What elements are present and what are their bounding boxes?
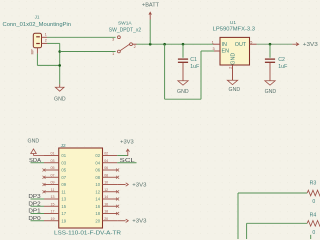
J2 pin 04 stub [103,162,118,164]
wire GND flag to pin 01 [34,155,45,157]
junction at branch to SW1A pin1 [58,50,61,53]
svg-text:+3V3: +3V3 [132,182,146,188]
no-connect pin 07 [43,176,46,179]
wire MP pin down [36,54,38,66]
svg-text:07: 07 [51,173,55,177]
net label DP1 on pin 17 [31,213,45,215]
svg-text:05: 05 [61,168,66,173]
J2 pin 07 stub [44,176,59,178]
J2 pin 12 stub [103,191,118,193]
svg-text:11: 11 [61,189,66,194]
svg-text:SW_DPDT_x2: SW_DPDT_x2 [109,27,141,33]
J2 pin 15 stub [44,205,59,207]
svg-text:MP: MP [31,49,35,55]
J2 pin 01 stub [44,155,59,157]
wire down to C1 [182,44,184,58]
SW1A pin 2 circle [130,43,133,46]
J1 pin 1 stub [42,36,48,38]
svg-text:OUT: OUT [235,42,247,48]
J2 pin 05 stub [44,169,59,171]
junction C1 [182,43,185,46]
svg-text:02: 02 [95,153,100,158]
svg-text:14: 14 [95,197,100,202]
SW1A pin 1 circle [118,50,121,53]
J2 pin 11 stub [44,191,59,193]
capacitor C1 plates [178,58,188,60]
svg-text:04: 04 [95,160,100,165]
ground symbol below C1 [178,81,188,85]
no-connect pin 08 [116,176,119,179]
power symbol +BATT [149,15,151,20]
U1 pin 5 OUT [250,43,257,45]
U1 pin 2 GND stub [232,65,234,80]
svg-text:GND: GND [177,89,189,95]
C2 lower lead [269,63,271,81]
svg-text:19: 19 [51,217,55,221]
svg-text:SCL: SCL [120,158,135,164]
svg-text:LP5907MFX-3.3: LP5907MFX-3.3 [213,26,255,32]
net label DP2 on pin 15 [31,205,45,207]
svg-text:3: 3 [213,47,215,51]
svg-text:+3V3: +3V3 [303,42,318,48]
svg-text:R3: R3 [310,180,317,186]
no-connect pin 05 [43,169,46,172]
wire up to +BATT [149,20,151,45]
net label DP3 on pin 13 [31,198,45,200]
svg-text:0: 0 [312,230,315,236]
no-connect pin 09 [43,183,46,186]
U1 pin 1 IN [213,43,220,45]
svg-text:17: 17 [61,211,66,216]
J2 pin 09 stub [44,184,59,186]
wire EN loop down [164,44,166,99]
J2 pin 08 stub [103,176,118,178]
U1 pin 3 EN [214,50,220,52]
J2 pin 13 stub [44,198,59,200]
svg-text:J1: J1 [35,15,40,20]
svg-text:18: 18 [95,211,100,216]
+3V3 power at J2 pin 20 [117,220,125,222]
svg-text:5: 5 [250,40,252,44]
svg-text:DP3: DP3 [28,194,40,200]
svg-text:11: 11 [51,188,55,192]
resistor R4 [307,221,320,227]
svg-text:2: 2 [45,39,47,43]
svg-text:2: 2 [229,67,233,69]
svg-text:02: 02 [104,152,108,156]
svg-text:J2: J2 [61,143,66,149]
svg-text:IN: IN [222,42,227,48]
wire EN loop up [200,51,202,99]
wire to R4 [247,222,308,224]
regulator U1 body [220,37,250,65]
svg-text:15: 15 [61,204,66,209]
wire EN loop to EN pin [201,50,214,52]
J2 pin 16 stub [103,205,118,207]
connector J2 body [59,148,103,228]
svg-text:DP0: DP0 [28,216,40,222]
svg-text:+3V3: +3V3 [132,219,146,225]
wire J1 pin2 right [47,42,60,44]
wire R3 down off-sheet [237,193,239,239]
svg-text:09: 09 [51,181,55,185]
svg-text:16: 16 [104,202,108,206]
svg-text:01: 01 [61,153,66,158]
svg-text:1: 1 [112,52,114,56]
svg-text:12: 12 [104,188,108,192]
junction +BATT drop [149,43,152,46]
junction EN loop [163,43,166,46]
wire down from J1 pin2 to GND [59,43,61,84]
J2 pin 19 stub [44,220,59,222]
net label SDA on pin 03 [31,162,45,164]
wire U1 OUT to +3V3 [257,43,293,45]
wire EN loop bottom [165,98,201,100]
no-connect pin 16 [116,205,119,208]
no-connect pin 12 [116,190,119,193]
svg-text:19: 19 [61,218,66,223]
svg-text:12: 12 [95,189,100,194]
+3V3 power at J2 pin 02 [117,155,128,157]
svg-text:U1: U1 [230,20,236,26]
svg-text:13: 13 [61,197,66,202]
wire MP to GND net [37,64,59,66]
power symbol +3V3 right [292,43,298,45]
svg-text:0: 0 [312,199,315,205]
SW1A lever [120,44,130,51]
svg-text:GND: GND [230,53,236,65]
svg-text:DP1: DP1 [28,209,40,215]
svg-text:2: 2 [134,45,136,49]
J2 pin 03 stub [44,162,59,164]
svg-text:10: 10 [95,182,100,187]
svg-text:07: 07 [61,175,66,180]
svg-text:13: 13 [51,195,55,199]
svg-text:C1: C1 [190,57,197,63]
SW1A pin 3 circle [118,36,121,39]
svg-text:10: 10 [104,181,108,185]
svg-text:20: 20 [95,218,100,223]
J2 pin 10 stub [103,184,118,186]
ground symbol below C2 [265,81,275,85]
junction C2 [269,43,272,46]
J2 pin 17 stub [44,213,59,215]
svg-text:LSS-110-01-F-DV-A-TR: LSS-110-01-F-DV-A-TR [54,231,121,237]
svg-text:04: 04 [104,159,108,163]
svg-text:GND: GND [229,87,241,93]
svg-text:14: 14 [104,195,108,199]
svg-text:+BATT: +BATT [142,2,160,8]
svg-text:03: 03 [51,159,55,163]
J1 pin 2 stub [42,42,48,44]
wire down to C2 [269,44,271,58]
resistor R3 [307,190,320,196]
svg-text:05: 05 [51,166,55,170]
svg-text:17: 17 [51,210,55,214]
svg-text:SDA: SDA [29,158,42,164]
svg-text:GND: GND [54,96,66,102]
net label DP0 on pin 19 [31,220,45,222]
wire SW1A pin2 to U1 IN [137,43,214,45]
svg-text:EN: EN [222,49,230,55]
svg-text:09: 09 [61,182,66,187]
svg-text:3: 3 [112,37,114,41]
svg-text:18: 18 [104,210,108,214]
J2 pin 06 stub [103,169,118,171]
svg-text:Conn_01x02_MountingPin: Conn_01x02_MountingPin [3,22,72,28]
svg-text:16: 16 [95,204,100,209]
wire R4 down off-sheet [246,223,248,239]
svg-text:GND: GND [265,89,277,95]
no-connect pin 14 [116,198,119,201]
svg-text:08: 08 [104,173,108,177]
ground symbol below J1 [59,84,61,87]
ground symbol below U1 [227,80,237,84]
capacitor C2 plates [265,58,275,60]
svg-text:20: 20 [104,217,108,221]
+3V3 power at J2 pin 10 [117,184,125,186]
J1 pin 2 contact mark [36,43,40,44]
no-connect pin 18 [116,212,119,215]
wire stub below R4 off-sheet [310,235,312,239]
connector J1 body [33,33,41,48]
J2 pin 20 stub [103,220,118,222]
J2 pin 02 stub [103,155,118,157]
J1 mounting pin MP [36,48,38,54]
svg-text:1: 1 [45,32,47,36]
J2 pin 18 stub [103,213,118,215]
SW1A pin 2 stub [133,43,137,45]
svg-text:03: 03 [61,160,66,165]
svg-text:C2: C2 [278,57,285,63]
wire to R3 [238,192,307,194]
svg-text:15: 15 [51,202,55,206]
C1 lower lead [182,63,184,81]
wire J1 pin1 to SW1A pin3 [47,36,116,38]
svg-text:DP2: DP2 [28,201,40,207]
svg-text:R4: R4 [310,212,317,218]
junction MP joins GND wire [58,64,61,67]
J1 pin 1 contact mark [36,36,40,37]
svg-text:+3V3: +3V3 [120,139,134,145]
no-connect pin 06 [116,169,119,172]
svg-text:GND: GND [28,139,40,145]
svg-text:06: 06 [104,166,108,170]
wire branch to SW1A pin1 [60,51,116,53]
svg-text:01: 01 [51,152,55,156]
no-connect pin 11 [43,190,46,193]
svg-text:1uF: 1uF [278,64,287,70]
svg-text:08: 08 [95,175,100,180]
J2 pin 14 stub [103,198,118,200]
net label SCL on pin 04 [117,162,136,164]
svg-text:1uF: 1uF [190,64,199,70]
svg-text:SW1A: SW1A [118,20,132,26]
svg-text:06: 06 [95,168,100,173]
svg-text:1: 1 [212,40,214,44]
